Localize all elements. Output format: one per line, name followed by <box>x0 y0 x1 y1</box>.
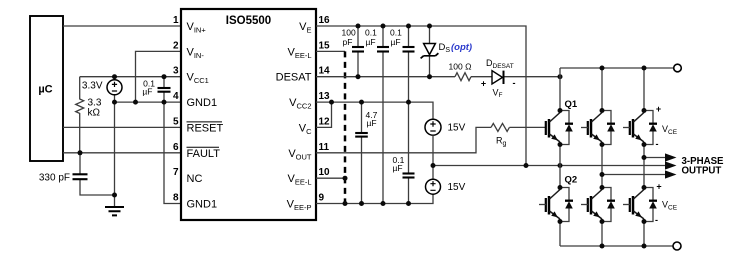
wire: µC to VIN+ pin 1 <box>63 25 181 27</box>
wire: VIN- pin 2 to GND rail <box>136 51 182 102</box>
wire: emitter midpoint line to phase <box>433 165 666 167</box>
wire: phase line leg2 <box>602 174 666 176</box>
svg-text:Q2: Q2 <box>565 175 578 186</box>
wire: GND1 pin4 to pin8 vertical <box>164 102 181 203</box>
svg-text:ISO5500: ISO5500 <box>226 15 271 27</box>
transistor leg3 bottom IGBT <box>630 185 657 224</box>
svg-text:RESET: RESET <box>187 122 224 134</box>
svg-text:OUTPUT: OUTPUT <box>682 166 722 177</box>
zener diode Ds (opt) <box>429 26 431 77</box>
wire: ground vertical from 3.3V source <box>114 102 116 207</box>
transistor Q1 (leg1 top IGBT) <box>546 108 573 147</box>
wire: VOUT pin 11 to Rg <box>316 127 491 152</box>
svg-text:GND1: GND1 <box>187 97 218 109</box>
transistor leg2 top IGBT <box>588 108 615 147</box>
node: DC+ terminal <box>674 64 682 72</box>
svg-text:(opt): (opt) <box>451 42 472 53</box>
svg-text:NC: NC <box>187 173 203 185</box>
svg-text:10: 10 <box>319 167 331 178</box>
svg-text:6: 6 <box>173 142 179 153</box>
resistor R 3.3 kΩ pull-up <box>76 77 84 153</box>
svg-text:-: - <box>656 139 659 149</box>
capacitor 4.7µF VCC2 bulk <box>361 102 363 203</box>
svg-text:DESAT: DESAT <box>276 72 312 84</box>
wire: DESAT row pin 14 <box>316 76 560 78</box>
svg-text:14: 14 <box>319 66 331 77</box>
svg-text:7: 7 <box>173 167 179 178</box>
transistor leg3 top IGBT <box>630 108 657 147</box>
svg-text:µF: µF <box>142 86 152 96</box>
svg-text:3.3V: 3.3V <box>82 81 103 92</box>
wire: FAULT row µC to pin 6 <box>63 152 181 154</box>
wire: dashed VEE-L link <box>344 51 347 203</box>
wire: GND1 rail to pin 4 <box>115 101 182 103</box>
wire: leg 1 verticals <box>559 68 561 246</box>
node dots middle section <box>356 24 361 29</box>
capacitor 100 pF blanking <box>357 26 359 77</box>
transistor Q2 (leg1 bottom IGBT) <box>546 185 573 224</box>
wire: leg 2 verticals <box>601 68 603 246</box>
wire: inverter DC+ top rail <box>560 67 674 69</box>
svg-text:pF: pF <box>343 37 353 47</box>
wire: RESET row µC to pin 5 <box>63 126 181 128</box>
voltage source 3.3V <box>114 77 116 102</box>
svg-text:µF: µF <box>366 37 376 47</box>
wire: VCC1 rail to pin 3 <box>80 76 181 78</box>
svg-text:100 Ω: 100 Ω <box>449 62 472 72</box>
svg-text:GND1: GND1 <box>187 199 218 211</box>
wire: leg 3 verticals <box>643 68 645 246</box>
svg-text:+: + <box>656 182 661 192</box>
wire: pin 15 VEE-L stub <box>316 50 345 52</box>
svg-text:3: 3 <box>173 66 179 77</box>
wire: phase line leg3 <box>644 157 666 159</box>
svg-text:1: 1 <box>173 15 179 26</box>
capacitor 0.1µF VCC2-VE bypass <box>408 26 410 102</box>
wire: pin 10 VEE-L stub <box>316 177 345 179</box>
svg-text:µF: µF <box>391 37 401 47</box>
svg-text:2: 2 <box>173 40 179 51</box>
capacitor 330 pF on FAULT <box>80 153 115 195</box>
capacitor 0.1µF (VCC1 bypass) <box>163 77 165 102</box>
svg-text:12: 12 <box>319 116 331 127</box>
diode D_DESAT <box>492 71 503 84</box>
svg-text:330 pF: 330 pF <box>39 173 70 184</box>
node dots on rails <box>600 66 605 71</box>
svg-text:4: 4 <box>173 91 179 102</box>
wire: VE rail pin16 down to emitter midpoint <box>316 26 526 166</box>
wire: gate line to Q1 <box>509 126 546 128</box>
svg-text:8: 8 <box>173 193 179 204</box>
wire: VEE-P bottom rail pin 9 <box>316 194 433 203</box>
svg-text:100: 100 <box>342 28 356 38</box>
svg-text:15V: 15V <box>448 123 466 134</box>
resistor Rg <box>491 123 509 131</box>
svg-text:16: 16 <box>319 15 331 26</box>
svg-text:µC: µC <box>38 84 52 96</box>
op-amp U1 ISO5500 gate driver IC box <box>181 9 316 220</box>
wire: 15V mid link <box>432 135 434 179</box>
svg-text:µF: µF <box>393 163 403 173</box>
node: phase arrows <box>665 153 677 161</box>
microcontroller µC box <box>30 16 63 161</box>
wire: inverter DC- bottom rail <box>560 245 673 247</box>
svg-text:0.1: 0.1 <box>365 28 377 38</box>
svg-text:-: - <box>655 215 658 225</box>
svg-text:15: 15 <box>319 40 331 51</box>
node: dots left section <box>112 74 117 79</box>
svg-text:15V: 15V <box>448 182 466 193</box>
transistor leg2 bottom IGBT <box>588 185 615 224</box>
ground symbol <box>105 207 124 215</box>
capacitor 0.1µF VE-VEE bypass <box>382 26 384 204</box>
svg-text:-: - <box>513 78 516 88</box>
capacitor 0.1µF VE-VEE lower bypass <box>408 102 410 203</box>
resistor 100 Ω <box>455 73 471 81</box>
svg-text:11: 11 <box>319 142 330 153</box>
svg-text:µF: µF <box>367 118 377 128</box>
svg-text:FAULT: FAULT <box>187 148 221 160</box>
svg-text:Q1: Q1 <box>565 99 578 110</box>
svg-text:0.1: 0.1 <box>390 28 402 38</box>
svg-text:5: 5 <box>173 116 179 127</box>
voltage source 15V lower <box>426 179 441 194</box>
svg-text:13: 13 <box>319 91 331 102</box>
wire: VC pin 12 tie to VCC2 <box>316 102 332 127</box>
wire: VCC2 row pin 13 to 15V supply <box>316 102 433 119</box>
voltage source 15V upper <box>425 119 441 135</box>
svg-text:+: + <box>656 104 661 114</box>
svg-text:+: + <box>481 79 486 89</box>
node: DC- terminal <box>673 242 681 250</box>
svg-text:9: 9 <box>319 193 325 204</box>
svg-text:kΩ: kΩ <box>88 107 101 118</box>
